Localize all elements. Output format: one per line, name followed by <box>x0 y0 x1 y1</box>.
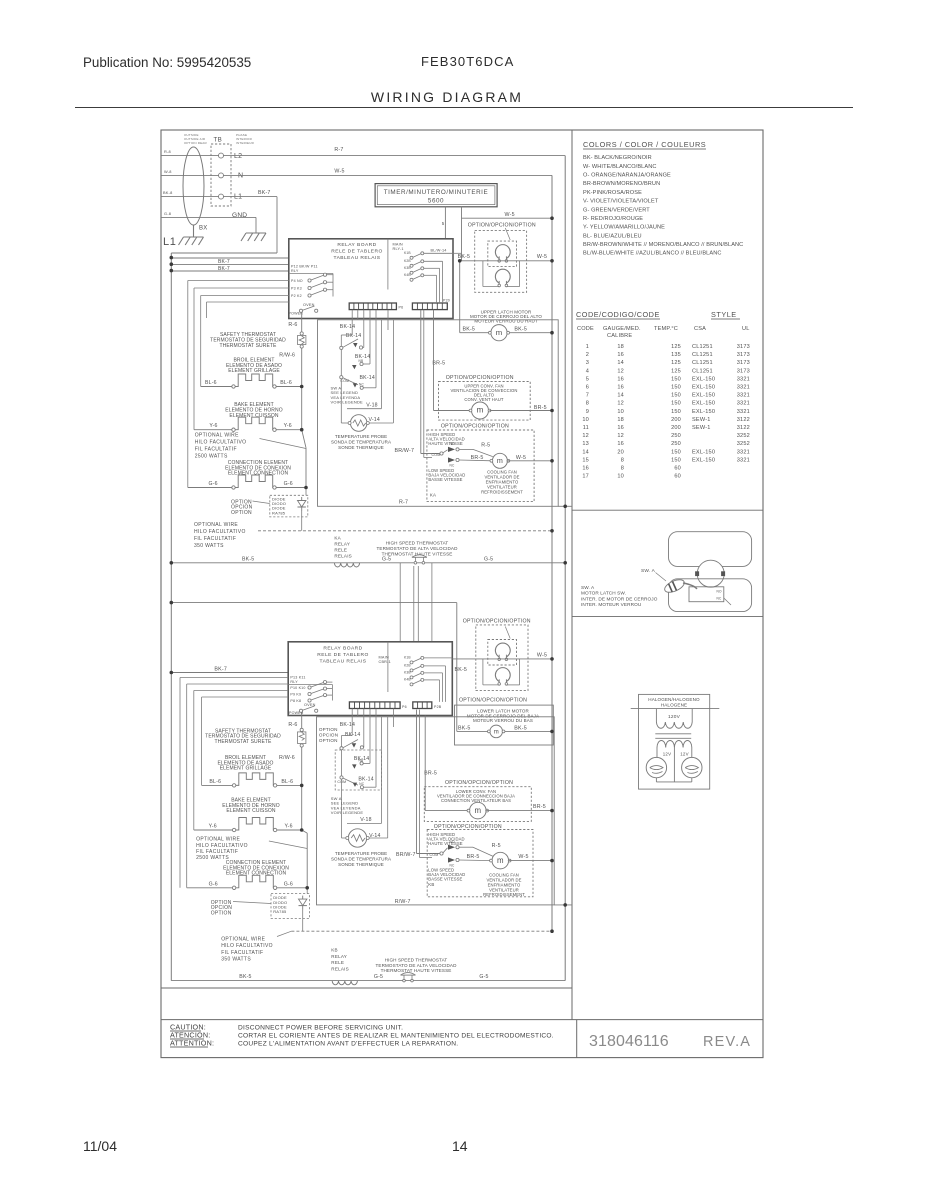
temperature probe <box>348 415 369 432</box>
svg-text:MOTEUR VERROU DU HAUT: MOTEUR VERROU DU HAUT <box>474 318 538 323</box>
svg-text:BR-5: BR-5 <box>424 770 437 776</box>
lower bake element <box>232 828 235 831</box>
svg-text:350 WATTS: 350 WATTS <box>221 957 251 963</box>
svg-text:BK-5: BK-5 <box>458 725 471 731</box>
option box upper cooling fan <box>427 430 534 502</box>
svg-text:W-5: W-5 <box>518 854 528 860</box>
wire to lower conv fan motor <box>425 810 469 812</box>
svg-text:STYLE: STYLE <box>711 310 737 319</box>
svg-text:4: 4 <box>586 368 589 374</box>
svg-text:HALOGENE: HALOGENE <box>661 703 687 708</box>
svg-text:5: 5 <box>442 221 445 226</box>
svg-text:P2B: P2B <box>434 705 442 709</box>
connection element caption <box>225 460 291 477</box>
svg-text:K3B: K3B <box>404 670 411 674</box>
lower option diode caption <box>211 900 233 917</box>
svg-text:8: 8 <box>621 457 624 463</box>
board2 relay contact frame <box>288 685 332 701</box>
svg-text:TEMPERATURE PROBE: TEMPERATURE PROBE <box>335 851 387 856</box>
wire to conv fan motor <box>434 410 471 412</box>
svg-text:16: 16 <box>617 385 624 391</box>
svg-text:EXL-150: EXL-150 <box>692 376 715 382</box>
svg-text:150: 150 <box>671 409 681 415</box>
lower optional wire 350W run <box>291 930 552 932</box>
svg-text:NB: NB <box>359 359 364 363</box>
cooling fan caption <box>481 470 523 495</box>
svg-text:W-5: W-5 <box>505 212 515 218</box>
svg-text:3321: 3321 <box>737 449 750 455</box>
svg-text:G-5: G-5 <box>484 557 493 563</box>
svg-text:COM: COM <box>432 453 441 457</box>
svg-text:3321: 3321 <box>737 376 750 382</box>
svg-text:14: 14 <box>617 360 624 366</box>
svg-text:318046116: 318046116 <box>589 1033 669 1050</box>
svg-text:TERMOSTATO DE ALTA VELOCIDAD: TERMOSTATO DE ALTA VELOCIDAD <box>377 546 459 551</box>
lower cooling fan motor M <box>492 852 509 869</box>
svg-text:17: 17 <box>582 474 589 480</box>
colors legend list <box>583 155 743 256</box>
wire W-5 top <box>224 174 553 176</box>
wire lower diode to optional wire <box>302 910 304 932</box>
wire R/W-6 <box>301 348 303 386</box>
cooling fan feed wires BR/W-7 <box>421 310 440 458</box>
svg-text:SEW-1: SEW-1 <box>692 425 711 431</box>
svg-text:P6: P6 <box>399 306 404 310</box>
board2 left pin labels <box>290 675 305 684</box>
svg-text:250: 250 <box>671 441 681 447</box>
svg-text:BK-7: BK-7 <box>218 266 230 272</box>
SW-A mid contact <box>352 359 363 369</box>
svg-text:VOIR LEGENDE: VOIR LEGENDE <box>331 810 364 815</box>
svg-text:P9 K9: P9 K9 <box>290 692 301 696</box>
svg-text:3252: 3252 <box>737 441 750 447</box>
svg-text:OPTION: OPTION <box>319 738 338 743</box>
svg-text:BL/W-BLUE/WHITE //AZUL/BLANCO: BL/W-BLUE/WHITE //AZUL/BLANCO // BLEU/BL… <box>583 251 721 257</box>
svg-text:TEMPERATURE PROBE: TEMPERATURE PROBE <box>335 434 387 439</box>
svg-text:BL-6: BL-6 <box>281 779 293 785</box>
svg-text:HILO FACULTATIVO: HILO FACULTATIVO <box>194 529 246 535</box>
lower latch motor caption <box>467 709 539 723</box>
svg-text:BR-5: BR-5 <box>533 804 546 810</box>
supply wire BK-8 <box>161 196 219 198</box>
svg-text:KA: KA <box>334 535 341 540</box>
svg-text:CL1251: CL1251 <box>692 368 713 374</box>
svg-text:RELAIS: RELAIS <box>334 553 352 558</box>
svg-text:CL1251: CL1251 <box>692 360 713 366</box>
svg-text:FEB30T6DCA: FEB30T6DCA <box>421 54 514 69</box>
svg-text:OPTION/OPCION/OPTION: OPTION/OPCION/OPTION <box>463 619 531 625</box>
latch cam tab right <box>722 572 725 576</box>
svg-text:K2B: K2B <box>404 663 411 667</box>
svg-text:P4 NO: P4 NO <box>291 279 303 283</box>
svg-text:UL: UL <box>742 326 750 332</box>
svg-text:P2 K2: P2 K2 <box>291 294 302 298</box>
diode CR1 <box>301 497 303 501</box>
svg-text:m: m <box>477 406 484 415</box>
svg-text:BL-6: BL-6 <box>209 779 221 785</box>
svg-text:REFROIDISSEMENT: REFROIDISSEMENT <box>483 892 525 897</box>
board2 main relay label <box>379 656 391 665</box>
wire V-18 <box>347 320 381 409</box>
high speed caption <box>428 432 464 446</box>
upper section enclosure R-7 <box>318 320 559 507</box>
svg-text:RELE DE TABLERO: RELE DE TABLERO <box>331 249 382 255</box>
wire W-5 cooling fan out <box>507 460 552 462</box>
svg-text:m: m <box>497 856 504 865</box>
lock 2 parallel wiring <box>483 261 520 287</box>
svg-text:HAUTE VITESSE: HAUTE VITESSE <box>428 441 462 446</box>
terminal N <box>219 173 224 178</box>
svg-text:EXL-150: EXL-150 <box>692 385 715 391</box>
svg-text:3321: 3321 <box>737 401 750 407</box>
latch switch terminals <box>717 590 732 606</box>
SW A legend note <box>331 385 364 404</box>
lower optional wire 350W caption <box>221 937 273 963</box>
wire BL/W-14 jog <box>453 252 462 254</box>
connection element wire right <box>276 487 306 489</box>
svg-text:W-5: W-5 <box>537 653 547 659</box>
lower bake element caption <box>222 798 279 815</box>
svg-text:COUPEZ L'ALIMENTATION AVANT D': COUPEZ L'ALIMENTATION AVANT D'EFFECTUER … <box>238 1041 458 1048</box>
svg-text:BL/W-14: BL/W-14 <box>431 249 447 253</box>
svg-text:CL1251: CL1251 <box>692 344 713 350</box>
transformer secondary <box>657 741 692 782</box>
svg-text:14: 14 <box>617 393 624 399</box>
svg-text:COLORS / COLOR / COULEURS: COLORS / COLOR / COULEURS <box>583 140 706 149</box>
relay coil KA <box>334 563 359 567</box>
lower broil element wire right <box>277 784 302 786</box>
broil element caption <box>226 358 282 375</box>
svg-text:Y-6: Y-6 <box>209 423 217 429</box>
lower high speed thermostat disc <box>403 979 406 982</box>
board1 oven power switch <box>289 303 318 316</box>
broil element <box>232 385 235 388</box>
phase note text <box>236 133 255 145</box>
svg-text:14: 14 <box>582 449 589 455</box>
svg-text:R-5: R-5 <box>481 443 490 449</box>
lower conv fan feed wire <box>424 716 426 811</box>
svg-text:L2: L2 <box>234 153 242 160</box>
svg-text:ELEMENT GRILLAGE: ELEMENT GRILLAGE <box>228 368 280 374</box>
bake element <box>232 428 235 431</box>
bus W-5 vertical <box>551 175 553 931</box>
svg-text:BR-BROWN/MORENO/BRUN: BR-BROWN/MORENO/BRUN <box>583 181 660 187</box>
board2 oven power switch <box>289 703 318 715</box>
svg-text:12V: 12V <box>680 751 688 756</box>
upper conv fan motor M <box>472 402 489 419</box>
svg-text:3122: 3122 <box>737 425 750 431</box>
svg-text:Y-6: Y-6 <box>284 423 292 429</box>
svg-text:EXL-150: EXL-150 <box>692 401 715 407</box>
option box lower cooling fan <box>427 830 533 897</box>
board2 connector strip P6 <box>349 702 400 709</box>
lower safety thermostat <box>300 728 303 731</box>
halogen lamp right <box>682 757 702 777</box>
svg-text:MAIN: MAIN <box>393 242 403 246</box>
lower bake element wire right <box>277 829 302 831</box>
svg-text:G- GREEN/VERDE/VERT: G- GREEN/VERDE/VERT <box>583 207 650 213</box>
svg-text:11/04: 11/04 <box>83 1138 117 1154</box>
svg-text:200: 200 <box>671 425 681 431</box>
lower diode box labels <box>273 895 287 914</box>
upper latch motor M <box>491 325 507 341</box>
svg-text:EXL-150: EXL-150 <box>692 449 715 455</box>
svg-text:5: 5 <box>586 376 589 382</box>
svg-text:W- WHITE/BLANCO/BLANC: W- WHITE/BLANCO/BLANC <box>583 164 656 170</box>
option diode caption <box>231 499 253 516</box>
door lock solenoid 1 <box>495 245 510 259</box>
lower feed wire from bus <box>171 603 457 732</box>
svg-text:RA785: RA785 <box>272 510 286 515</box>
svg-text:CORTAR EL CORIENTE ANTES DE RE: CORTAR EL CORIENTE ANTES DE REALIZAR EL … <box>238 1033 554 1040</box>
upper conv fan caption <box>451 383 518 402</box>
lower lock 2 parallel wiring <box>483 659 520 685</box>
high speed thermostat disc <box>414 562 417 565</box>
svg-text:FIL FACULTATIF: FIL FACULTATIF <box>195 447 237 453</box>
svg-text:CALIBRE: CALIBRE <box>607 333 632 339</box>
svg-text:P6: P6 <box>402 705 407 709</box>
lower cooling fan caption <box>483 872 525 897</box>
lower section enclosure R/W-7 <box>317 717 555 905</box>
svg-text:RLY-1: RLY-1 <box>393 247 404 251</box>
wire BR-5 lower conv fan out <box>486 810 552 812</box>
svg-text:10: 10 <box>582 417 589 423</box>
board1 connector strip P6 <box>349 303 396 310</box>
transformer primary 120V <box>656 709 692 729</box>
board1 main relay divider <box>387 239 389 290</box>
svg-text:BK-7: BK-7 <box>258 190 271 196</box>
high speed thermostat caption <box>377 541 459 557</box>
lower low speed caption <box>428 868 465 882</box>
SW-A com blade 2 <box>340 376 365 390</box>
svg-text:V-18: V-18 <box>366 402 377 408</box>
ground symbol BX <box>179 237 204 245</box>
lower conv fan motor M <box>470 802 487 819</box>
svg-text:10: 10 <box>617 409 624 415</box>
svg-text:EXL-150: EXL-150 <box>692 393 715 399</box>
svg-text:Y-6: Y-6 <box>285 824 293 830</box>
svg-text:OPTION/OPCION/OPTION: OPTION/OPCION/OPTION <box>441 423 509 429</box>
svg-text:N: N <box>238 173 243 180</box>
timer drop wire W-5 <box>461 207 463 261</box>
svg-text:BR/W-BROWN/WHITE // MORENO/BLA: BR/W-BROWN/WHITE // MORENO/BLANCO // BRU… <box>583 242 743 248</box>
wire W-5 lower cooling fan out <box>509 860 552 862</box>
main area bottom border <box>161 987 572 989</box>
svg-text:P8 K8: P8 K8 <box>290 699 301 703</box>
safety thermostat <box>300 332 303 335</box>
svg-text:K1B: K1B <box>404 251 411 255</box>
svg-text:ATTENTION:: ATTENTION: <box>170 1039 214 1048</box>
option box upper conv fan <box>439 382 531 421</box>
svg-text:18: 18 <box>617 344 624 350</box>
bake element wire right <box>276 429 302 431</box>
terminal L2 <box>219 153 224 158</box>
svg-text:3321: 3321 <box>737 409 750 415</box>
relay KA row wire <box>171 562 565 564</box>
wire BK-5 lower latch motor <box>457 730 552 732</box>
svg-text:12V: 12V <box>663 751 671 756</box>
wire chain to connection element <box>302 387 306 488</box>
svg-text:NC: NC <box>359 782 365 786</box>
svg-text:m: m <box>496 328 502 337</box>
svg-text:5600: 5600 <box>428 198 444 205</box>
lower diode CR2 <box>302 896 304 900</box>
svg-text:BASSE VITESSE: BASSE VITESSE <box>428 477 462 482</box>
svg-text:60: 60 <box>674 474 681 480</box>
svg-text:BK-14: BK-14 <box>340 324 355 330</box>
lower latch motor M <box>490 725 503 738</box>
svg-text:SONDA DE TEMPERATURA: SONDA DE TEMPERATURA <box>331 439 391 444</box>
lower optional wire 2500W caption <box>196 837 248 862</box>
relay KB caption <box>331 948 349 972</box>
svg-text:NO: NO <box>450 840 456 844</box>
svg-text:BX: BX <box>199 226 207 232</box>
lower broil element <box>232 784 235 787</box>
svg-text:12: 12 <box>617 401 624 407</box>
svg-text:K4B: K4B <box>404 677 411 681</box>
lower temperature probe caption <box>331 851 391 867</box>
wire R-6 lower drop <box>301 712 303 728</box>
svg-text:R/W-7: R/W-7 <box>395 899 411 905</box>
svg-text:G-6: G-6 <box>209 481 218 487</box>
svg-text:125: 125 <box>671 368 681 374</box>
right panel left border <box>571 130 573 1020</box>
lower connection element <box>232 886 235 889</box>
relay KA caption <box>334 535 352 558</box>
svg-text:R-7: R-7 <box>399 500 408 506</box>
lower high speed thermostat caption <box>376 958 458 974</box>
svg-text:20: 20 <box>617 449 624 455</box>
svg-text:BK-5: BK-5 <box>455 667 468 673</box>
left bus vertical <box>170 253 172 981</box>
svg-text:8: 8 <box>621 466 624 472</box>
svg-text:3321: 3321 <box>737 385 750 391</box>
temperature probe caption <box>331 434 391 450</box>
lower broil element wire left <box>202 784 233 786</box>
relay board 1 title <box>331 242 382 261</box>
lower cooling fan speed switch <box>430 840 460 868</box>
board2 pin drop wires <box>352 709 393 788</box>
svg-text:P20: P20 <box>443 298 450 302</box>
svg-text:HALOGEN/HALOGENO: HALOGEN/HALOGENO <box>648 697 700 702</box>
svg-text:INTER. DE MOTOR DE CERROJO: INTER. DE MOTOR DE CERROJO <box>581 596 658 601</box>
svg-text:K4B: K4B <box>404 273 411 277</box>
svg-text:FIL FACULTATIF: FIL FACULTATIF <box>221 950 263 956</box>
svg-text:2500 WATTS: 2500 WATTS <box>195 454 228 460</box>
svg-text:R/W-6: R/W-6 <box>279 755 295 761</box>
svg-text:OPTION/OPCION/OPTION: OPTION/OPCION/OPTION <box>459 698 527 704</box>
svg-text:14: 14 <box>452 1138 468 1154</box>
svg-text:G-6: G-6 <box>284 481 293 487</box>
SW-A chain wire <box>341 335 352 423</box>
svg-text:G-5: G-5 <box>479 974 488 980</box>
svg-text:BL- BLUE/AZUL/BLEU: BL- BLUE/AZUL/BLEU <box>583 233 642 239</box>
latch motor feed wire <box>459 261 461 333</box>
lower SW-A option dashed box <box>335 750 381 790</box>
svg-text:BR-5: BR-5 <box>471 455 484 461</box>
svg-text:Y-6: Y-6 <box>209 824 217 830</box>
cable note text <box>184 133 208 145</box>
svg-text:NB: NB <box>359 759 364 763</box>
safety thermostat caption <box>210 332 286 349</box>
option box upper locks outer <box>475 231 527 293</box>
svg-text:BL-6: BL-6 <box>280 380 292 386</box>
wire junction dots <box>170 216 568 933</box>
svg-text:150: 150 <box>671 401 681 407</box>
svg-text:150: 150 <box>671 457 681 463</box>
svg-text:2500 WATTS: 2500 WATTS <box>196 855 229 861</box>
svg-text:12: 12 <box>582 433 589 439</box>
svg-text:m: m <box>497 457 503 465</box>
svg-text:R/W-6: R/W-6 <box>279 352 295 358</box>
svg-text:CSA: CSA <box>694 326 706 332</box>
svg-text:OPTION/OPCION/OPTION: OPTION/OPCION/OPTION <box>446 375 514 381</box>
lower wire chain to connection element <box>302 785 308 887</box>
svg-text:G-5: G-5 <box>382 557 391 563</box>
svg-text:K3B: K3B <box>404 266 411 270</box>
svg-text:P3 K3: P3 K3 <box>291 286 302 290</box>
svg-text:R-5: R-5 <box>492 843 501 849</box>
svg-text:OPTIONAL WIRE: OPTIONAL WIRE <box>194 522 238 528</box>
diode box dashed <box>270 495 308 517</box>
svg-text:WIRING DIAGRAM: WIRING DIAGRAM <box>371 89 523 105</box>
svg-text:CONV. VENT HAUT: CONV. VENT HAUT <box>464 397 504 402</box>
svg-text:3173: 3173 <box>737 352 750 358</box>
svg-text:BR-5: BR-5 <box>467 854 480 860</box>
relay board 2 title <box>317 645 368 664</box>
lower temperature probe <box>346 829 369 847</box>
svg-text:RELAY: RELAY <box>331 954 347 959</box>
bus feed wire 2 BK-7 <box>171 263 288 265</box>
svg-text:TABLEAU RELAIS: TABLEAU RELAIS <box>334 255 381 261</box>
svg-text:16: 16 <box>582 466 589 472</box>
optional wire 2500W caption <box>195 432 247 459</box>
halogen lamp left <box>646 757 666 777</box>
svg-text:OPTION/OPCION/OPTION: OPTION/OPCION/OPTION <box>445 780 513 786</box>
svg-text:G-5: G-5 <box>374 974 383 980</box>
option labels lower SW-A <box>319 727 338 743</box>
svg-text:13: 13 <box>582 441 589 447</box>
timer box <box>375 184 497 207</box>
bake element caption <box>225 402 282 419</box>
caution box top border <box>161 1019 763 1021</box>
lower probe output wire <box>369 717 388 838</box>
svg-text:SONDE THERMIQUE: SONDE THERMIQUE <box>338 862 384 867</box>
svg-text:TABLEAU RELAIS: TABLEAU RELAIS <box>320 658 367 664</box>
svg-text:SONDE THERMIQUE: SONDE THERMIQUE <box>338 445 384 450</box>
svg-text:REV.A: REV.A <box>703 1034 751 1050</box>
feed wires to relay board 2 <box>400 563 432 642</box>
svg-text:ELEMENT CONNECTION: ELEMENT CONNECTION <box>228 471 289 477</box>
svg-text:OPTION: OPTION <box>231 510 252 516</box>
diode box labels <box>272 496 286 515</box>
wire R-6 drop <box>301 312 303 332</box>
svg-text:3173: 3173 <box>737 368 750 374</box>
svg-text:MAIN: MAIN <box>379 656 389 660</box>
option box lower locks inner <box>488 640 517 666</box>
svg-text:NC: NC <box>717 597 723 601</box>
board1 pin drop wires <box>352 310 388 388</box>
svg-text:R-7: R-7 <box>334 147 343 153</box>
svg-text:Y- YELLOW/AMARILLO/JAUNE: Y- YELLOW/AMARILLO/JAUNE <box>583 225 665 231</box>
svg-text:1: 1 <box>586 344 589 350</box>
leader to lower diode box <box>233 902 271 904</box>
svg-text:BK-7: BK-7 <box>218 259 230 265</box>
svg-text:12: 12 <box>617 433 624 439</box>
svg-text:TIMER/MINUTERO/MINUTERIE: TIMER/MINUTERO/MINUTERIE <box>384 189 489 196</box>
lower door lock solenoid 1 <box>495 643 510 657</box>
bake element wire left <box>194 429 232 431</box>
